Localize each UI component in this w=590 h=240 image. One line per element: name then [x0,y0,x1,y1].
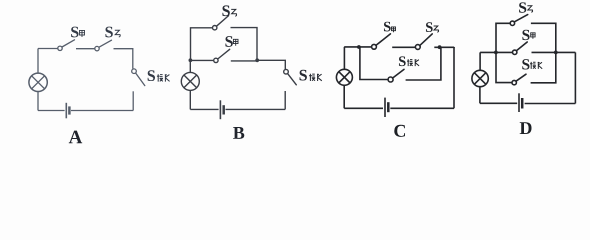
node left junction (D) [494,51,498,55]
wire D main horizontal left [480,51,512,53]
label S乙 (B) [222,5,236,16]
switch S乙 blade (D) [514,15,528,22]
wire C top middle [392,46,415,48]
wire D left vertical lower [479,87,481,103]
label S乙 (D) [519,2,532,12]
switch S楼长 pivot (B) [284,69,289,74]
switch S甲 pivot (B) [214,58,218,62]
wire C top right [434,46,454,48]
label S乙 (C) [426,22,439,32]
battery B short plate [222,105,225,114]
wire D bottom right [525,103,576,105]
wire A right vertical lower [132,91,134,110]
node right junction (C) [438,45,442,49]
label B [233,127,244,139]
switch S楼长 pivot (D) [512,80,516,84]
battery D short plate [521,98,524,109]
switch S乙 blade (B) [217,16,229,27]
wire B bottom left [190,108,218,110]
wire B left vertical mid [189,60,191,72]
label S乙 (A) [105,27,120,38]
label S楼长 (C) [399,56,419,66]
wire D left vertical upper [479,52,481,70]
battery D long plate [518,93,520,112]
battery C short plate [387,102,390,112]
wire B top branch left [191,28,213,61]
wire D bottom branch right [531,52,556,82]
wire C branch left vertical [360,47,388,80]
switch S楼长 blade (B) [288,74,297,85]
lamp A [29,73,47,91]
battery C long plate [384,98,386,117]
wire D top branch right [531,23,556,52]
label S甲 (D) [522,30,535,40]
label S楼长 (B) [300,70,322,81]
switch S楼长 pivot (C) [388,77,393,82]
wire B right vertical lower [284,91,286,109]
wire C top left [344,46,371,48]
battery A long plate [65,103,67,119]
wire C bottom right [390,107,454,109]
label S楼长 (D) [522,59,542,69]
lamp C [336,69,352,85]
wire A left vertical lower [37,91,39,110]
wire B bottom right [226,108,286,110]
wire A left vertical upper [37,49,39,74]
switch S甲 pivot [58,46,62,50]
switch S乙 blade (C) [420,34,433,46]
label D [520,122,532,134]
switch S乙 blade [99,40,112,47]
wire A top right + right vertical upper [114,49,133,69]
label S甲 (C) [384,22,396,33]
switch S甲 blade (B) [218,49,230,59]
wire B middle branch right [231,60,257,62]
switch S乙 pivot (B) [213,26,217,30]
wire C left vertical upper [343,47,345,69]
wire D bottom branch left vertical [496,52,512,82]
wire C right vertical [453,47,455,108]
switch S甲 blade (C) [376,34,391,46]
wire C bottom left [344,107,383,109]
wire A bottom right [71,110,133,112]
label A [69,131,82,144]
lamp B [181,72,199,90]
switch S乙 pivot (D) [510,21,514,25]
switch S甲 blade (D) [516,42,527,51]
wire A bottom left [38,110,65,112]
wire C left vertical lower [343,85,345,108]
label S楼长 (A) [148,70,170,81]
switch S甲 pivot (C) [372,44,377,49]
wire B left vertical lower [189,90,191,109]
wire D top branch left vertical [496,23,510,52]
label S甲 (A) [71,27,84,38]
lamp D [472,70,488,86]
wire D bottom left [480,102,517,104]
wire B top branch right [231,28,258,61]
label S甲 (B) [225,36,238,47]
wire A top-left horizontal [38,48,58,50]
wire B right horizontal to corner [257,60,285,69]
node left junction (B) [189,58,193,62]
switch S楼长 pivot [132,69,137,74]
switch S乙 pivot [95,46,99,50]
node right junction (D) [554,51,558,55]
label C [394,125,405,137]
wire D right vertical [574,52,576,103]
battery A short plate [68,106,71,114]
switch S甲 pivot (D) [513,50,517,54]
switch S乙 pivot (C) [415,45,420,50]
battery B long plate [219,100,221,119]
wire C branch right [406,47,441,80]
switch S楼长 blade (D) [516,74,526,81]
wire B middle branch left [190,59,213,61]
switch S楼长 blade (C) [393,69,405,78]
wire A top middle [76,48,95,50]
switch S楼长 blade [136,73,145,85]
node right junction (B) [255,58,259,62]
node left junction (C) [357,45,361,49]
switch S甲 blade [62,40,75,47]
wire D main horizontal right [532,51,576,53]
